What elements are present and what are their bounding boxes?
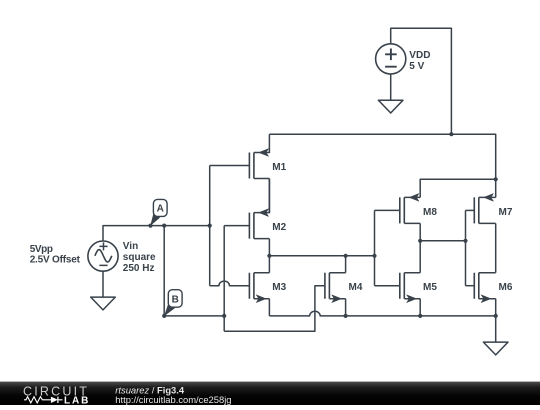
junction node A / A-B link bbox=[162, 224, 166, 228]
svg-text:2.5V Offset: 2.5V Offset bbox=[30, 254, 81, 265]
wire M3 drain riser bbox=[268, 256, 270, 273]
svg-text:M4: M4 bbox=[349, 282, 363, 293]
pmos M8 bbox=[400, 194, 438, 224]
wire A-B link vertical bbox=[163, 226, 165, 316]
pmos M2 bbox=[249, 179, 286, 239]
wire inverter1 output vertical bbox=[419, 223, 421, 272]
pmos M7 bbox=[474, 194, 513, 224]
svg-text:M3: M3 bbox=[272, 282, 286, 293]
junction inverter1 out / M7-M6 gates bbox=[463, 239, 467, 243]
svg-text:M5: M5 bbox=[423, 282, 437, 293]
wire low jog to M4 gate bbox=[224, 286, 325, 332]
svg-text:LAB: LAB bbox=[64, 395, 90, 405]
junction M4 drain / stage1 rail bbox=[344, 254, 348, 258]
wire stage1 output rail bbox=[269, 255, 374, 257]
junction M6 source / ground rail bbox=[494, 314, 498, 318]
nmos M3 bbox=[249, 273, 286, 303]
nmos M6 bbox=[474, 273, 513, 303]
svg-text:M8: M8 bbox=[423, 207, 437, 218]
wire M7 gate lead bbox=[466, 209, 475, 211]
svg-text:M7: M7 bbox=[499, 207, 513, 218]
junction node A flag pin bbox=[148, 224, 152, 228]
junction VDD branch to M8/M7 bbox=[494, 177, 498, 181]
svg-text:250 Hz: 250 Hz bbox=[123, 263, 155, 274]
CircuitLab logo bbox=[23, 384, 90, 406]
CircuitLab footer bar bbox=[0, 382, 540, 405]
wire M4 drain riser bbox=[345, 256, 347, 273]
wire M5 source drop bbox=[419, 299, 421, 316]
node flag B bbox=[164, 290, 182, 317]
wire M4 source drop bbox=[345, 299, 347, 316]
junction M5 source / source rail bbox=[418, 314, 422, 318]
svg-text:VDD: VDD bbox=[409, 50, 430, 61]
junction M4 source / source rail bbox=[344, 314, 348, 318]
wire M1 gate lead bbox=[210, 165, 250, 167]
junction node B flag pin bbox=[162, 314, 166, 318]
label VDD 5V bbox=[409, 50, 430, 72]
wire M3 source drop bbox=[268, 299, 270, 316]
wire M1-M2 link bbox=[268, 179, 270, 213]
wire B horizontal bbox=[164, 315, 224, 317]
svg-text:M2: M2 bbox=[272, 222, 286, 233]
wire M2 gate lead bbox=[224, 225, 249, 227]
svg-text:Vin: Vin bbox=[123, 241, 138, 252]
svg-text:B: B bbox=[172, 294, 179, 305]
svg-text:M6: M6 bbox=[499, 282, 513, 293]
wire inverter1 output horizontal bbox=[420, 240, 465, 242]
svg-text:square: square bbox=[123, 252, 156, 263]
ground below Vin bbox=[91, 297, 116, 310]
wire M8-M5 gates vertical bbox=[374, 210, 376, 285]
wire rail to right ground bbox=[495, 316, 497, 342]
wire source rail with hop bbox=[269, 311, 495, 316]
wire rail to M8 drain bbox=[420, 179, 496, 197]
wire B2 vertical bbox=[223, 226, 225, 332]
wire M8 gate lead bbox=[375, 209, 400, 211]
voltage source Vin bbox=[88, 241, 118, 271]
svg-text:M1: M1 bbox=[272, 162, 286, 173]
node flag A bbox=[150, 199, 167, 226]
wire M5 gate lead bbox=[375, 285, 400, 287]
svg-text:A: A bbox=[157, 204, 164, 215]
wire M7-M6 gates vertical bbox=[465, 210, 467, 285]
wire Vin to ground bbox=[102, 271, 104, 297]
wire VDD top loop bbox=[391, 28, 452, 134]
label 5Vpp 2.5V Offset bbox=[30, 244, 81, 265]
junction M2 drain / M3 drain bbox=[267, 254, 271, 258]
junction node B / M2-M4 gate column bbox=[222, 314, 226, 318]
svg-text:http://circuitlab.com/ce258jg: http://circuitlab.com/ce258jg bbox=[115, 394, 231, 405]
wire M2 drain drop bbox=[268, 239, 270, 256]
junction node A / gate column bbox=[208, 224, 212, 228]
ground right bbox=[483, 342, 508, 355]
wire VDD rail bbox=[269, 134, 495, 179]
wire M7-M6 output link bbox=[495, 223, 497, 272]
wire M6 source drop bbox=[495, 299, 497, 316]
wire A vertical bbox=[209, 166, 211, 286]
nmos M5 bbox=[400, 273, 438, 303]
svg-text:5 V: 5 V bbox=[409, 61, 424, 72]
junction VDD / top rail bbox=[449, 132, 453, 136]
wire M6 gate lead bbox=[466, 285, 475, 287]
pmos M1 bbox=[249, 134, 286, 178]
junction M8 drain / M5 drain bbox=[418, 239, 422, 243]
voltage source VDD bbox=[376, 44, 406, 74]
nmos M4 bbox=[325, 273, 363, 303]
junction stage1 rail / M8-M5 gates bbox=[372, 254, 376, 258]
wire VDD to ground bbox=[390, 74, 392, 100]
ground below VDD bbox=[378, 100, 403, 113]
wire A net horizontal bbox=[103, 226, 210, 241]
label Vin square 250 Hz bbox=[123, 241, 156, 274]
wire M3 gate with hop bbox=[210, 281, 250, 286]
